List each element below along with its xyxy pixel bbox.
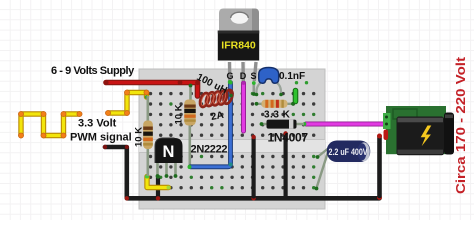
svg-text:3.3 Volt: 3.3 Volt xyxy=(78,118,117,130)
leg: R1 bottom xyxy=(147,147,150,176)
wire: blue gate wire xyxy=(188,81,233,170)
wire: black stub emitter to rail xyxy=(156,175,160,197)
svg-text:2A: 2A xyxy=(210,110,225,123)
capacitor C1 0.1nF xyxy=(255,68,283,97)
wire: black ground from PWM xyxy=(103,145,382,201)
svg-text:Circa 170 - 220 Volt: Circa 170 - 220 Volt xyxy=(454,56,468,194)
svg-text:2.2 uF 400V: 2.2 uF 400V xyxy=(329,147,368,158)
legs: 2N2222 xyxy=(156,162,159,176)
wire: magenta output wire xyxy=(303,122,388,126)
breadboard xyxy=(139,69,325,209)
PCB and barrel jack J1 xyxy=(383,106,454,155)
inductor L1 100uH xyxy=(198,89,234,108)
wire: magenta drain wire xyxy=(242,81,246,131)
resistor R3 3.3K xyxy=(255,100,295,108)
resistor R1 10K xyxy=(143,121,153,150)
svg-text:0.1nF: 0.1nF xyxy=(279,71,305,82)
diode D1 1N4007 xyxy=(260,120,304,129)
svg-text:2N2222: 2N2222 xyxy=(191,144,228,156)
wire: yellow jumper to emitter xyxy=(145,175,171,190)
transistor Q1 2N2222 xyxy=(155,138,183,163)
resistor R2 10K xyxy=(184,100,195,126)
svg-text:10 K: 10 K xyxy=(134,127,145,147)
svg-text:G: G xyxy=(226,71,233,81)
svg-text:IFR840: IFR840 xyxy=(221,40,256,52)
wire: red supply rail xyxy=(103,80,200,96)
wire: yellow PWM zigzag xyxy=(18,90,149,138)
svg-text:S: S xyxy=(250,71,256,81)
svg-text:D: D xyxy=(240,71,247,81)
svg-text:1N4007: 1N4007 xyxy=(268,131,309,145)
MOSFET U1 IRF840 TO-220 xyxy=(218,9,259,85)
svg-text:3.3 K: 3.3 K xyxy=(264,110,291,121)
wire: black ground return xyxy=(377,134,382,197)
leg: R2 top xyxy=(189,84,192,100)
leg: R1 top xyxy=(147,96,150,122)
wire: black mid vertical xyxy=(251,135,255,197)
svg-text:N: N xyxy=(163,143,175,161)
wire: black right vertical xyxy=(283,131,287,196)
leg: S pin xyxy=(253,84,256,93)
wire: green jumper xyxy=(295,81,298,84)
svg-text:PWM signal: PWM signal xyxy=(70,132,132,144)
svg-text:10 K: 10 K xyxy=(174,104,185,124)
leg: R2 bottom long xyxy=(189,124,192,166)
capacitor C2 2.2uF 400V electrolytic xyxy=(315,141,371,191)
svg-text:6 - 9 Volts Supply: 6 - 9 Volts Supply xyxy=(51,65,135,77)
